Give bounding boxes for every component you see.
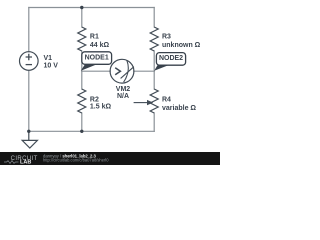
svg-text:10 V: 10 V	[44, 63, 59, 70]
svg-text:1.5 kΩ: 1.5 kΩ	[90, 103, 112, 110]
svg-text:R3: R3	[162, 33, 171, 40]
svg-text:R1: R1	[90, 33, 99, 40]
svg-text:NODE1: NODE1	[85, 54, 109, 61]
svg-text:R2: R2	[90, 96, 99, 103]
svg-text:V1: V1	[44, 55, 53, 62]
svg-text:44 kΩ: 44 kΩ	[90, 42, 110, 49]
svg-text:NODE2: NODE2	[159, 55, 183, 62]
svg-text:N/A: N/A	[117, 93, 129, 100]
svg-text:R4: R4	[162, 97, 171, 104]
svg-text:variable Ω: variable Ω	[162, 105, 196, 112]
svg-text:unknown Ω: unknown Ω	[162, 42, 201, 49]
svg-text:LAB: LAB	[20, 160, 31, 165]
svg-text:http://circuitlab.com/c/ba07a8: http://circuitlab.com/c/ba07a8/sherl0	[43, 158, 109, 163]
